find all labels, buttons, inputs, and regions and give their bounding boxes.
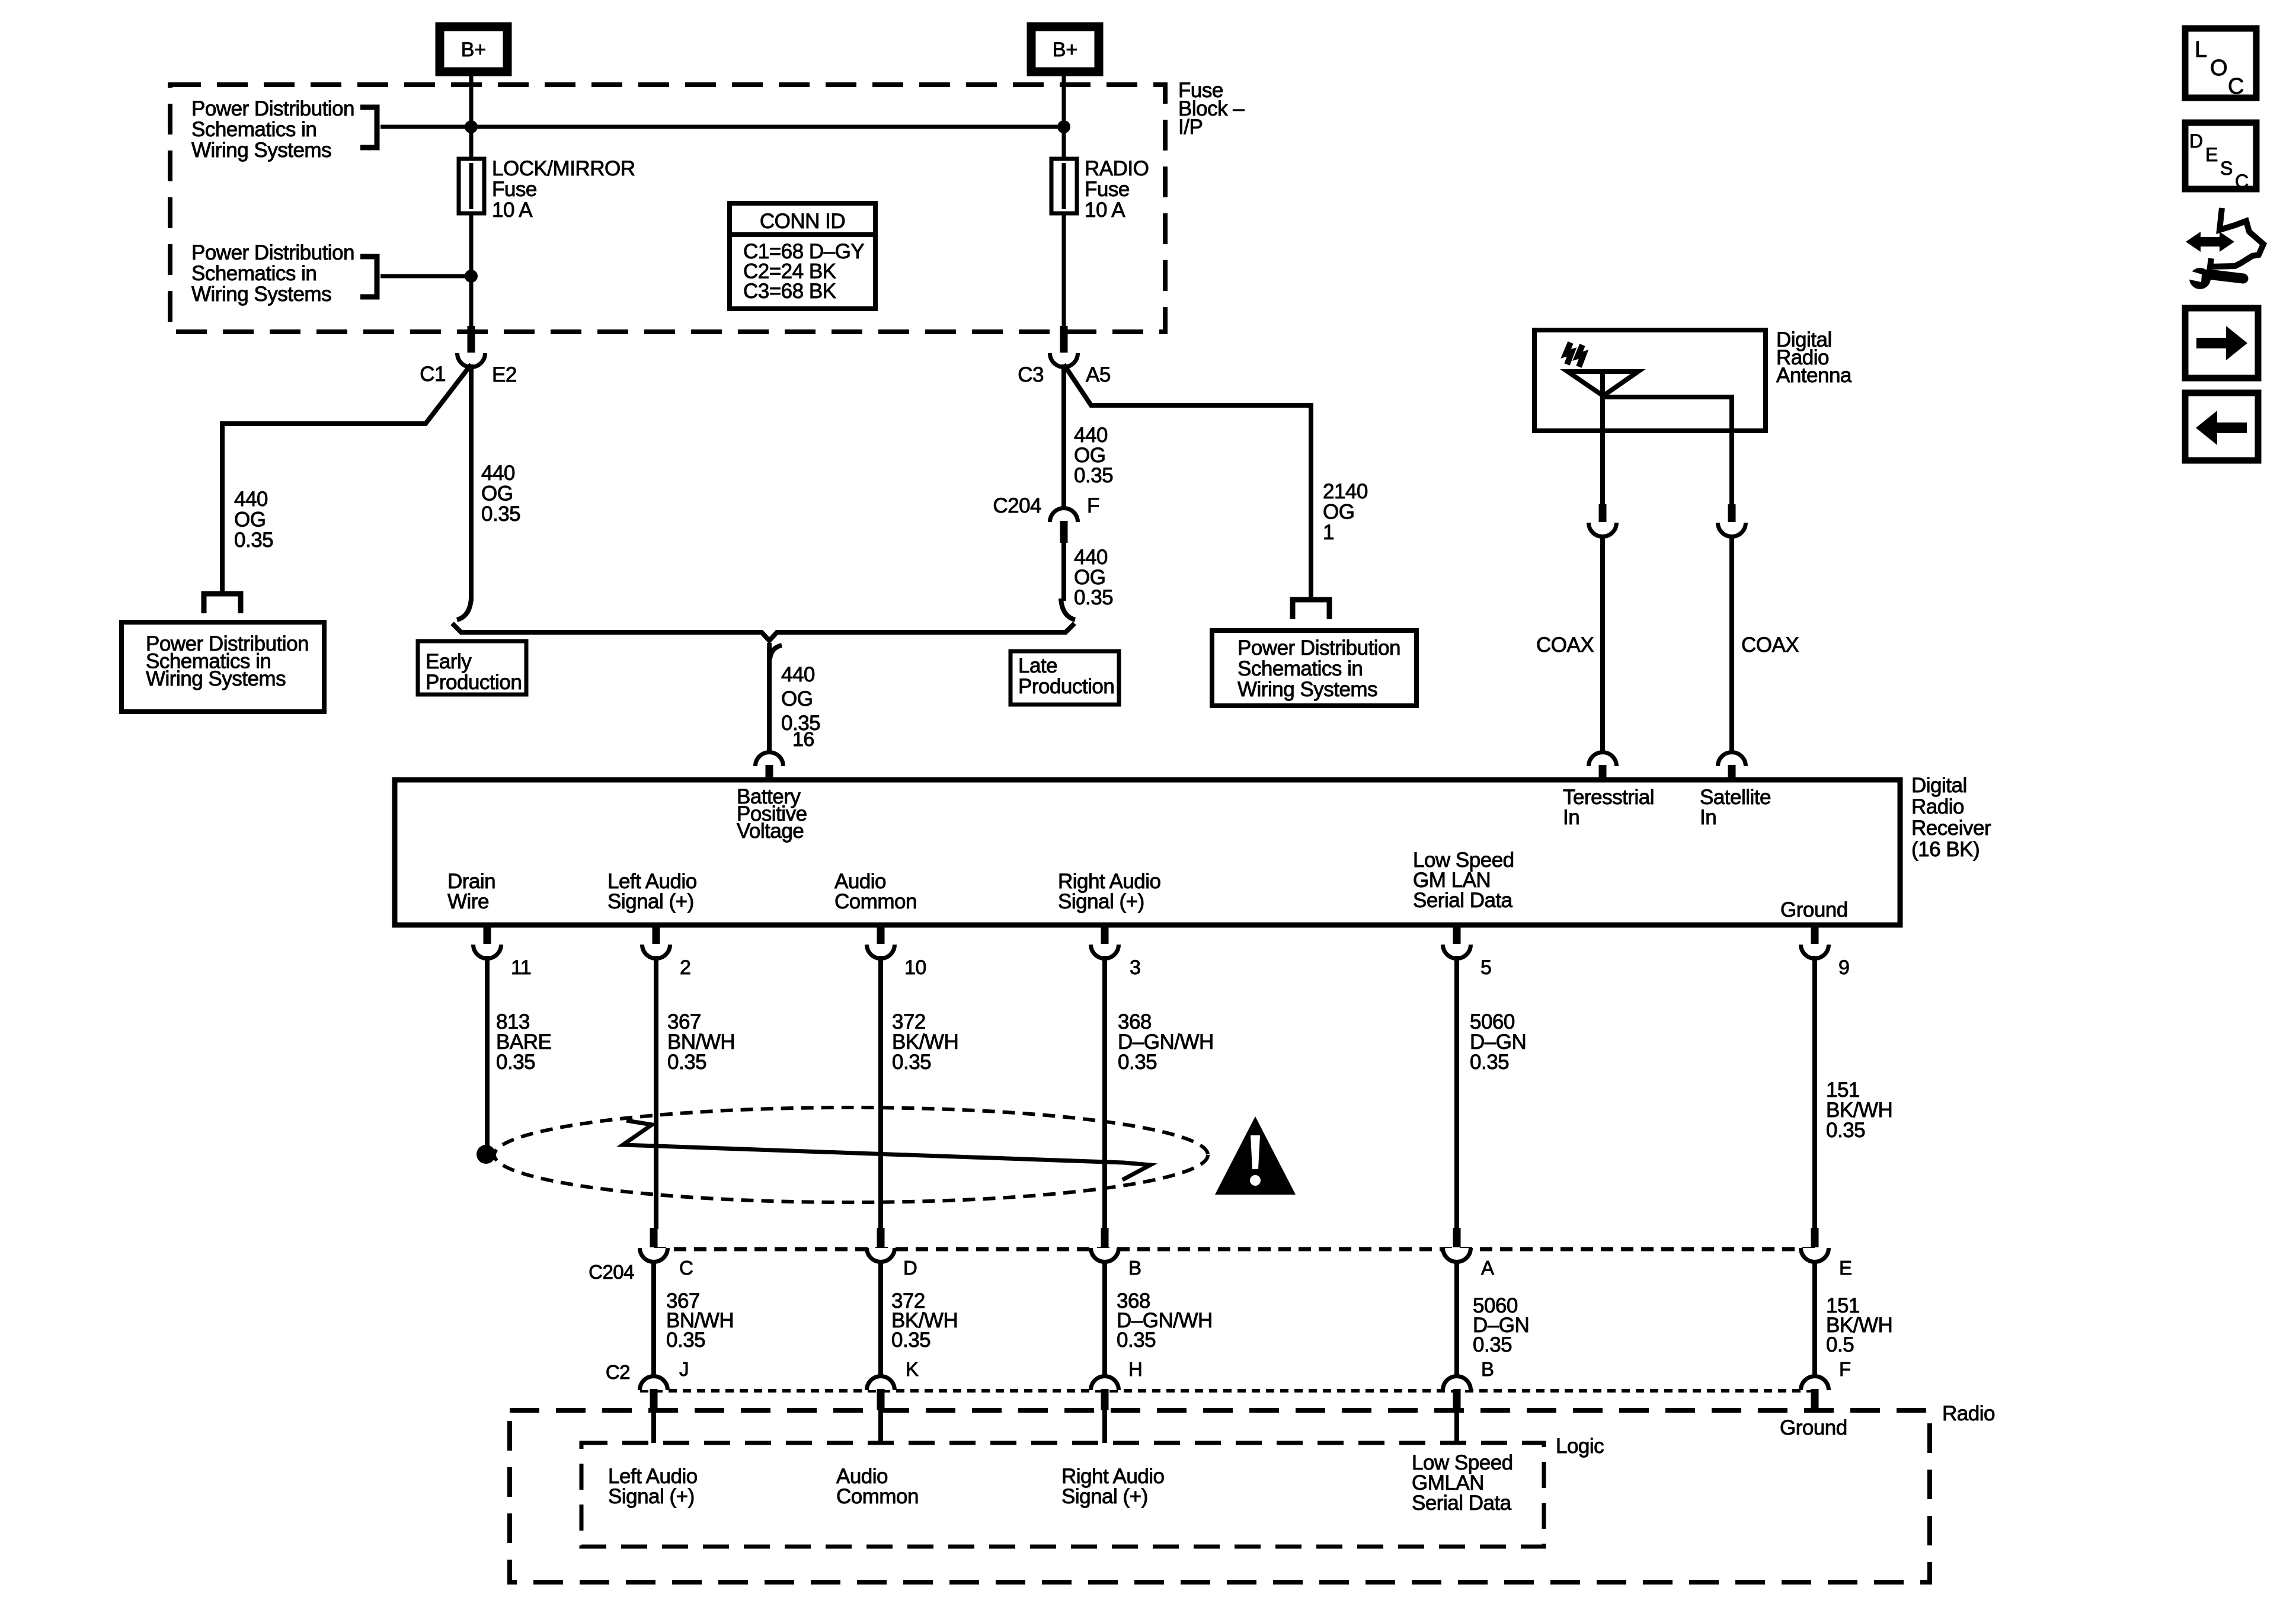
svg-text:0.35: 0.35 [666, 1329, 705, 1352]
wire terrestrial coax lower [1600, 536, 1605, 754]
svg-text:COAX: COAX [1741, 633, 1799, 657]
svg-text:B: B [1128, 1257, 1141, 1279]
CONN ID table [730, 203, 875, 309]
svg-text:Schematics in: Schematics in [1237, 657, 1363, 680]
svg-text:OG: OG [234, 508, 266, 532]
wire terrestrial coax upper [1600, 431, 1605, 504]
svg-text:2140: 2140 [1323, 480, 1368, 503]
svg-text:Receiver: Receiver [1911, 817, 1991, 840]
svg-text:1: 1 [1323, 521, 1334, 544]
svg-text:0.35: 0.35 [1118, 1051, 1157, 1074]
fuse LOCK/MIRROR 10 A [459, 159, 484, 213]
margin icon DESC [2185, 123, 2256, 189]
radio dashed box [510, 1410, 1930, 1582]
svg-text:Serial Data: Serial Data [1412, 1491, 1512, 1515]
junction dot feed 2 [465, 270, 478, 283]
svg-text:0.35: 0.35 [1470, 1051, 1509, 1074]
junction dot left bus [465, 120, 478, 133]
svg-text:OG: OG [781, 687, 813, 710]
digital radio receiver box (16 BK) [395, 780, 1900, 925]
svg-text:C: C [2235, 171, 2249, 192]
receiver pin 9 [1801, 945, 1828, 959]
svg-text:Common: Common [834, 890, 917, 913]
wire satellite coax upper [1729, 432, 1734, 504]
svg-text:Early: Early [426, 650, 472, 673]
svg-text:F: F [1839, 1358, 1851, 1380]
wire between C204 and C2 at x=1864 [1102, 1260, 1107, 1378]
svg-text:Wire: Wire [447, 890, 489, 913]
early/late production selection brace [457, 598, 471, 620]
fuse RADIO 10 A [1051, 159, 1077, 213]
wire circuit 372 BK/WH (receiver to C204 D) [878, 956, 883, 1229]
svg-text:0.35: 0.35 [892, 1051, 931, 1074]
connector C2 pin K [867, 1376, 895, 1390]
bracket power distribution feed 1 [360, 107, 377, 148]
svg-text:A: A [1481, 1257, 1494, 1279]
svg-text:440: 440 [481, 462, 515, 485]
connector C2 pin F [1801, 1376, 1828, 1390]
svg-text:10: 10 [904, 956, 926, 979]
in-line coax connector (satellite) [1718, 523, 1746, 537]
wire B+ left vertical (into LOCK/MIRROR fuse) [469, 72, 474, 329]
svg-text:0.35: 0.35 [667, 1051, 706, 1074]
wire power distribution feed 2 y=466 [380, 274, 471, 279]
svg-text:A5: A5 [1086, 363, 1111, 386]
svg-text:Signal (+): Signal (+) [1061, 1485, 1148, 1508]
receiver satellite-in pin [1718, 753, 1746, 767]
wire satellite coax lower [1729, 536, 1734, 754]
svg-text:In: In [1700, 806, 1716, 829]
svg-text:Ground: Ground [1780, 898, 1848, 921]
power node B+ (left, battery feed to LOCK/MIRROR fuse) [440, 27, 507, 72]
svg-text:Wiring Systems: Wiring Systems [191, 283, 331, 306]
connector C204 harness line [654, 1247, 1815, 1251]
box Late Production [1011, 651, 1119, 705]
svg-text:COAX: COAX [1536, 633, 1594, 657]
margin icon arrow right [2185, 308, 2258, 378]
svg-text:H: H [1128, 1358, 1142, 1380]
svg-text:B+: B+ [1053, 39, 1078, 61]
connector C2 harness line [640, 1389, 1815, 1393]
twisted pair pointer arrow [623, 1121, 1150, 1180]
connector C2 pin J [640, 1376, 668, 1390]
wire C2 into logic at x=2458 [1454, 1410, 1459, 1443]
connector C1/E2 at fuse block output (left) [458, 353, 485, 367]
svg-text:0.35: 0.35 [1473, 1333, 1512, 1356]
box Power Distribution Schematics in Wiring Systems (right) [1212, 630, 1416, 706]
svg-text:2: 2 [680, 956, 690, 979]
wire between C204 and C2 at x=1486 [878, 1260, 883, 1378]
svg-text:In: In [1563, 806, 1579, 829]
receiver pin 3 [1091, 945, 1119, 959]
connector C204 pin E [1801, 1248, 1828, 1262]
svg-text:0.35: 0.35 [1117, 1329, 1156, 1352]
wire circuit 368 D-GN/WH (receiver to C204 B) [1102, 956, 1107, 1229]
wire circuit 367 BN/WH (receiver to C204 C) [654, 956, 658, 1229]
svg-text:C204: C204 [589, 1261, 634, 1283]
wire B+ right vertical (into RADIO fuse) [1062, 72, 1066, 329]
margin icon LOC [2185, 28, 2256, 98]
svg-text:F: F [1087, 494, 1099, 517]
svg-text:CONN ID: CONN ID [760, 210, 845, 233]
receiver pin 10 [867, 945, 895, 959]
svg-text:Schematics in: Schematics in [191, 118, 316, 141]
svg-text:E2: E2 [492, 363, 517, 386]
svg-text:Power Distribution: Power Distribution [191, 241, 354, 264]
fuse block - I/P dashed boundary [170, 85, 1165, 332]
svg-text:Wiring Systems: Wiring Systems [1237, 678, 1377, 701]
svg-text:0.5: 0.5 [1826, 1333, 1854, 1356]
connector C204 pin F (in-line, late production feed) [1061, 364, 1066, 508]
svg-text:LOCK/MIRROR: LOCK/MIRROR [492, 157, 635, 180]
svg-text:11: 11 [511, 956, 531, 979]
svg-text:5: 5 [1480, 956, 1491, 979]
svg-text:B+: B+ [461, 39, 487, 61]
svg-text:16: 16 [792, 728, 814, 751]
svg-text:0.35: 0.35 [481, 502, 520, 526]
wire antenna horizontal to satellite feed [1603, 397, 1732, 432]
connector C2 pin H [1091, 1376, 1119, 1390]
wire circuit 440 OG to receiver pin 16 [767, 643, 772, 754]
svg-text:Fuse: Fuse [492, 178, 537, 201]
svg-text:0.35: 0.35 [891, 1329, 930, 1352]
wire circuit 5060 D-GN (receiver to C204 A) [1454, 956, 1459, 1229]
wire between C204 and C2 at x=3062 [1812, 1260, 1817, 1378]
svg-text:Signal (+): Signal (+) [1058, 890, 1144, 913]
bracket power distribution feed 2 [360, 257, 377, 297]
svg-text:Antenna: Antenna [1776, 364, 1852, 387]
connector C2 pin B [1443, 1376, 1471, 1390]
antenna symbol [1568, 372, 1638, 396]
svg-text:Power Distribution: Power Distribution [191, 97, 354, 120]
receiver pin 16 (battery positive voltage) [756, 753, 784, 767]
svg-text:Wiring Systems: Wiring Systems [146, 667, 286, 690]
wire circuit 813 BARE drain [485, 956, 490, 1150]
wire between C204 and C2 at x=2458 [1454, 1260, 1459, 1378]
wire between C204 and C2 at x=1103 [651, 1260, 656, 1378]
svg-text:C204: C204 [993, 494, 1041, 517]
svg-text:J: J [679, 1358, 689, 1380]
svg-text:0.35: 0.35 [1074, 586, 1113, 609]
svg-text:D: D [2189, 130, 2203, 152]
svg-text:Common: Common [836, 1485, 919, 1508]
connector C3/A5 at fuse block output (right) [1050, 353, 1078, 367]
drain wire termination dot [477, 1145, 495, 1164]
svg-text:Signal (+): Signal (+) [607, 890, 694, 913]
svg-text:D: D [903, 1257, 917, 1279]
terminal to power distribution schematic (right) [1293, 600, 1329, 619]
svg-text:O: O [2210, 56, 2228, 81]
svg-text:C: C [679, 1257, 693, 1279]
svg-text:Fuse: Fuse [1085, 178, 1130, 201]
svg-text:3: 3 [1130, 956, 1140, 979]
svg-text:10 A: 10 A [1085, 199, 1125, 222]
margin icon arrow left [2185, 393, 2258, 460]
svg-text:I/P: I/P [1178, 116, 1203, 139]
junction dot right bus [1057, 120, 1070, 133]
svg-text:C1: C1 [420, 363, 446, 386]
svg-text:Late: Late [1018, 654, 1057, 677]
wire C2 into logic at x=1864 [1102, 1410, 1107, 1443]
wire power distribution bus y=214 [380, 125, 1064, 129]
svg-text:Serial Data: Serial Data [1413, 889, 1513, 912]
svg-text:Wiring Systems: Wiring Systems [191, 139, 331, 162]
svg-text:B: B [1481, 1358, 1494, 1380]
svg-text:Logic: Logic [1556, 1435, 1604, 1458]
svg-text:RADIO: RADIO [1085, 157, 1149, 180]
svg-text:OG: OG [1323, 501, 1354, 524]
connector C204 pin D [867, 1248, 895, 1262]
connector C204 pin C [640, 1248, 668, 1262]
wire circuit 440 OG early production (E2 branch) [469, 364, 474, 601]
power node B+ (right, battery feed to RADIO fuse) [1031, 27, 1099, 72]
svg-text:Radio: Radio [1942, 1402, 1995, 1425]
svg-text:C: C [2228, 74, 2244, 99]
svg-text:E: E [1839, 1257, 1852, 1279]
svg-text:C3: C3 [1018, 363, 1044, 386]
svg-text:Power Distribution: Power Distribution [1237, 636, 1400, 660]
receiver terrestrial-in pin [1589, 753, 1617, 767]
connector C204 pin A [1443, 1248, 1471, 1262]
terminal to power distribution schematic (left) [204, 594, 241, 613]
connector C204 pin B [1091, 1248, 1119, 1262]
svg-text:440: 440 [781, 663, 815, 686]
svg-text:K: K [906, 1358, 919, 1380]
svg-text:Voltage: Voltage [737, 820, 804, 843]
wire circuit 151 BK/WH ground (receiver to C204 E) [1812, 956, 1817, 1229]
receiver pin 5 [1443, 945, 1471, 959]
box Early Production [418, 641, 526, 694]
wire circuit 440 OG below C204 F [1061, 543, 1066, 601]
receiver pin 2 [642, 945, 670, 959]
svg-text:0.35: 0.35 [234, 529, 273, 552]
svg-text:E: E [2205, 144, 2218, 165]
svg-text:0.35: 0.35 [1826, 1119, 1865, 1142]
svg-text:Production: Production [1018, 675, 1114, 698]
svg-text:S: S [2220, 158, 2233, 179]
margin icon diagnostic (arrow, outline, wrench) [2186, 232, 2234, 252]
svg-text:C2: C2 [606, 1361, 630, 1383]
shielded twisted cable ellipse [494, 1108, 1208, 1202]
svg-text:Radio: Radio [1911, 795, 1964, 818]
svg-text:9: 9 [1838, 956, 1849, 979]
svg-text:0.35: 0.35 [496, 1051, 535, 1074]
svg-text:0.35: 0.35 [1074, 464, 1113, 487]
svg-text:Ground: Ground [1780, 1416, 1847, 1439]
receiver pin 11 [474, 945, 501, 959]
box Power Distribution Schematics in Wiring Systems (left) [121, 622, 324, 712]
svg-text:Schematics in: Schematics in [191, 262, 316, 285]
svg-text:OG: OG [481, 482, 513, 505]
svg-text:L: L [2195, 37, 2207, 62]
wire circuit 2140 OG (A5 branch) [1064, 364, 1311, 601]
in-line coax connector (terrestrial) [1589, 523, 1617, 537]
svg-text:Production: Production [426, 671, 522, 694]
svg-text:440: 440 [234, 488, 268, 511]
wire C2 into logic at x=1486 [878, 1410, 883, 1443]
warning caution triangle [1215, 1116, 1296, 1195]
svg-text:Signal (+): Signal (+) [608, 1485, 695, 1508]
wire circuit 440 OG to power distribution (C1 branch) [222, 364, 471, 595]
svg-text:C3=68 BK: C3=68 BK [743, 280, 836, 303]
digital radio antenna box [1534, 330, 1766, 431]
svg-text:10 A: 10 A [492, 199, 533, 222]
svg-text:Digital: Digital [1911, 774, 1967, 797]
svg-text:(16 BK): (16 BK) [1911, 838, 1980, 861]
radio logic dashed box [581, 1443, 1544, 1547]
wire C2 into logic at x=1103 [651, 1410, 656, 1443]
